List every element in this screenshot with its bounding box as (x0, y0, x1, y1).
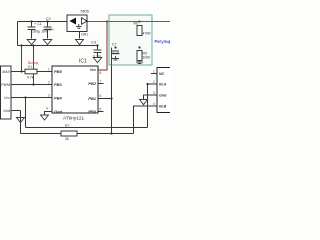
wire divider junction row (112, 47, 140, 49)
svg-text:NC: NC (159, 72, 165, 76)
svg-text:7: 7 (100, 80, 102, 84)
svg-text:PB5: PB5 (54, 69, 63, 74)
wire IN.A row (148, 83, 158, 85)
svg-text:8: 8 (100, 71, 102, 75)
wire IN.B riser and row (134, 106, 158, 134)
wire NC stub (151, 73, 157, 75)
resistor R6 (137, 26, 142, 36)
ground under C2 (43, 40, 52, 45)
wire R1 right (37, 71, 52, 73)
wire PB2 stub (98, 83, 104, 85)
svg-text:Gnd: Gnd (54, 109, 63, 114)
svg-text:PB1: PB1 (88, 96, 97, 101)
wire divider riser (111, 48, 113, 134)
svg-text:7805: 7805 (80, 9, 90, 14)
svg-text:2: 2 (48, 81, 50, 85)
svg-text:PB2: PB2 (88, 81, 97, 86)
wire riser pin3 to upper bus (25, 98, 27, 128)
svg-text:470R: 470R (143, 32, 152, 36)
hollow arrow right inside 7805 (82, 18, 88, 25)
svg-text:6: 6 (100, 94, 102, 98)
ground under C3 (93, 58, 102, 63)
svg-text:1: 1 (48, 68, 50, 72)
filled arrow left inside 7805 (70, 18, 77, 25)
svg-text:IN.A: IN.A (159, 83, 167, 87)
svg-text:4.7k: 4.7k (27, 76, 34, 80)
svg-text:C2: C2 (46, 17, 51, 21)
resistor R1 (25, 69, 37, 74)
node pin2 row / maroon branch (32, 83, 34, 85)
small ground inside 7805 (76, 24, 82, 28)
connector X1 (1, 66, 12, 119)
wire left vertical input (17, 22, 19, 46)
capacitor C7 (112, 51, 119, 54)
svg-text:5: 5 (100, 108, 102, 112)
svg-text:Vcc: Vcc (4, 96, 10, 100)
node top rail / C1 (30, 20, 32, 22)
node +5V rail / Vcc feed (106, 20, 108, 22)
node pin3 row / riser (24, 96, 26, 98)
svg-text:Vcc: Vcc (90, 68, 96, 72)
svg-text:MAX: MAX (2, 70, 10, 74)
svg-text:PWM: PWM (1, 83, 10, 87)
maroon branch to connector pin2 (33, 46, 35, 85)
ground under right IC gnd (140, 100, 148, 105)
svg-text:1: 1 (153, 70, 155, 74)
svg-text:R1: R1 (28, 65, 32, 69)
wire C3 stub top (97, 46, 99, 50)
pin numbers IC1 (46, 68, 102, 112)
svg-text:3: 3 (48, 94, 50, 98)
wire C3 stub bottom (97, 53, 99, 58)
redraw rail over teal (109, 21, 170, 23)
IC1 ATtiny12L box (52, 66, 98, 113)
wire riser pin4 to lower bus (20, 111, 22, 134)
wire lower bottom bus right (77, 133, 134, 135)
ground bar under R5 (136, 61, 143, 64)
svg-text:0.1m: 0.1m (113, 51, 120, 55)
svg-text:0.1m: 0.1m (46, 28, 54, 32)
node +5V rail / R6 (138, 20, 140, 22)
right IC driver box (157, 68, 173, 113)
svg-text:2k: 2k (65, 137, 69, 141)
node divider / C7 (114, 46, 116, 48)
wire lower bottom bus left (21, 133, 62, 135)
IC1 gnd pin wire (45, 112, 53, 116)
ground on pin4 riser (17, 118, 25, 123)
node PB1 / divider riser (110, 97, 112, 99)
ground under IC1 gnd (41, 115, 49, 120)
svg-text:PB0: PB0 (88, 109, 97, 114)
svg-text:ATtiny12L: ATtiny12L (63, 116, 85, 122)
svg-text:PB3: PB3 (54, 82, 63, 87)
ground under UR1 (76, 40, 84, 45)
resistor R7 (61, 131, 77, 136)
wire R6 stubs (139, 22, 141, 26)
ground under C1 (27, 40, 36, 45)
svg-text:4: 4 (46, 107, 48, 111)
svg-text:IC1: IC1 (79, 59, 87, 65)
svg-text:3: 3 (153, 91, 155, 95)
svg-text:R6: R6 (134, 22, 138, 26)
svg-text:4: 4 (153, 102, 155, 106)
node bus / pin2 branch (32, 44, 34, 46)
node divider / R6 R5 (138, 46, 140, 48)
node top rail / C2 (46, 20, 48, 22)
wire C1 stub (31, 22, 33, 27)
wire R5 stubs (139, 48, 141, 51)
svg-text:R7: R7 (65, 124, 69, 128)
wire IN.A riser (147, 84, 149, 128)
node bus / C3 (96, 44, 98, 46)
node R1 row / pin1 (20, 70, 22, 72)
resistor R5 (137, 51, 142, 61)
ground bar under C7 (112, 56, 119, 60)
node bus / R1 branch (20, 44, 22, 46)
wire PB0 stub (98, 111, 104, 113)
svg-text:100K: 100K (143, 56, 152, 60)
svg-text:+ C1: + C1 (34, 22, 42, 26)
svg-text:PB4: PB4 (54, 96, 63, 101)
maroon drop to R1 row (21, 46, 23, 72)
wire upper bottom bus (26, 127, 148, 129)
capacitor C1 (28, 27, 36, 30)
wire C2 stub (47, 22, 49, 27)
node riser / lower bus (110, 132, 112, 134)
wire row pin3 to PB4 (11, 97, 52, 99)
wire bus y45 (18, 45, 98, 47)
wire row pin4 gnd (11, 110, 21, 112)
wire row PWM pin2 to PB3 (11, 84, 52, 86)
svg-text:C7: C7 (112, 43, 116, 47)
svg-text:IN.B: IN.B (159, 105, 167, 109)
capacitor C3 (94, 50, 102, 53)
svg-text:2: 2 (153, 80, 155, 84)
maroon Vcc feed (98, 22, 107, 71)
wire top +12V rail (18, 21, 68, 23)
red +5V rail (87, 21, 170, 23)
svg-text:Gnd: Gnd (3, 109, 11, 113)
redraw riser over teal (111, 48, 113, 66)
wire UR1 gnd stub (79, 32, 81, 39)
svg-text:UR1: UR1 (81, 33, 88, 37)
capacitor C2 (44, 27, 52, 30)
teal box thermistor (109, 15, 152, 65)
node IN.A row / riser (146, 83, 148, 85)
regulator UR1 7805 box (67, 15, 87, 32)
svg-text:Gnd: Gnd (159, 94, 167, 98)
wire right IC gnd (144, 95, 158, 100)
wire PB1 to divider riser (98, 98, 112, 100)
wire row R1 to IC1 pin1 (11, 71, 25, 73)
svg-text:Регулировка: Регулировка (155, 39, 171, 44)
wire C7 stubs (115, 48, 117, 51)
svg-text:C3: C3 (91, 40, 97, 45)
